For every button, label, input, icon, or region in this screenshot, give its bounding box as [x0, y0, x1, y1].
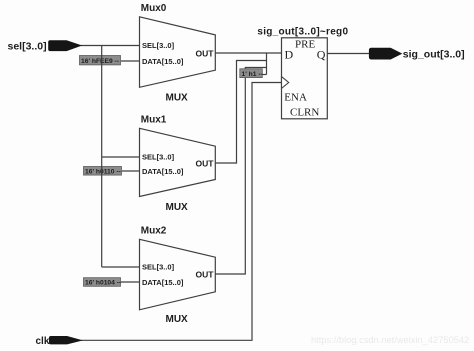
mux Mux1	[140, 115, 216, 214]
svg-text:SEL[3..0]: SEL[3..0]	[142, 263, 175, 272]
svg-text:1' h1 --: 1' h1 --	[242, 71, 263, 78]
mux Mux2	[140, 226, 216, 326]
register sig_out[3..0]~reg0	[257, 27, 348, 119]
svg-text:Q: Q	[317, 47, 326, 61]
svg-text:OUT: OUT	[196, 269, 215, 279]
output pin sig_out[3..0]	[369, 48, 464, 60]
wire Mux1 OUT up to D node	[215, 61, 266, 164]
watermark	[311, 335, 469, 345]
wire Mux2 OUT up to D node	[215, 68, 266, 275]
constant 16' h0110 (Mux1 DATA)	[84, 167, 122, 176]
svg-text:sig_out[3..0]: sig_out[3..0]	[403, 48, 465, 60]
svg-text:https://blog.csdn.net/weixin_4: https://blog.csdn.net/weixin_42750542	[311, 335, 469, 345]
wire sel bus from pin to Mux0 SEL	[81, 45, 140, 47]
wire register Q to output pin	[327, 53, 369, 55]
svg-text:SEL[3..0]: SEL[3..0]	[142, 153, 175, 162]
constant 1' h1 (register ENA)	[240, 69, 263, 78]
svg-text:Mux1: Mux1	[141, 115, 167, 126]
wire constant to Mux2 DATA	[121, 281, 140, 283]
svg-text:Mux0: Mux0	[141, 3, 167, 14]
mux Mux0	[140, 3, 216, 104]
wire constant to Mux0 DATA	[121, 60, 140, 62]
wire constant to Mux1 DATA	[122, 170, 140, 172]
svg-text:OUT: OUT	[196, 158, 215, 168]
svg-text:Mux2: Mux2	[141, 226, 167, 237]
wire merge vertical at D node	[266, 53, 268, 75]
svg-text:MUX: MUX	[166, 202, 189, 213]
svg-text:16' h0110 --: 16' h0110 --	[85, 168, 121, 175]
svg-text:DATA[15..0]: DATA[15..0]	[142, 167, 184, 176]
constant 16' hFEE9 (Mux0 DATA)	[80, 56, 121, 65]
svg-text:DATA[15..0]: DATA[15..0]	[142, 57, 184, 66]
svg-text:OUT: OUT	[196, 48, 215, 58]
svg-text:CLRN: CLRN	[290, 107, 319, 119]
svg-text:D: D	[285, 47, 294, 61]
svg-text:ENA: ENA	[284, 92, 307, 104]
svg-text:PRE: PRE	[295, 38, 315, 50]
svg-text:MUX: MUX	[166, 314, 189, 325]
wire sel vertical branch	[101, 46, 103, 268]
wire Mux0 OUT to register D	[215, 52, 281, 54]
svg-text:16' h0104 --: 16' h0104 --	[85, 280, 121, 287]
constant 16' h0104 (Mux2 DATA)	[84, 278, 122, 287]
input pin sel[3..0]	[8, 40, 81, 52]
svg-text:MUX: MUX	[166, 93, 189, 104]
svg-text:clk: clk	[36, 336, 50, 347]
input pin clk	[36, 336, 82, 347]
register clock input triangle	[282, 77, 289, 89]
svg-text:sel[3..0]: sel[3..0]	[8, 40, 47, 52]
svg-text:DATA[15..0]: DATA[15..0]	[142, 278, 184, 287]
wire clk to register clock input	[81, 83, 282, 341]
svg-text:16' hFEE9 --: 16' hFEE9 --	[81, 58, 119, 65]
wire ENA constant stub	[262, 74, 267, 76]
svg-text:SEL[3..0]: SEL[3..0]	[142, 41, 175, 50]
wire sel branch to Mux2 SEL	[102, 266, 140, 268]
wire sel branch to Mux1 SEL	[102, 156, 140, 158]
svg-text:sig_out[3..0]~reg0: sig_out[3..0]~reg0	[257, 27, 348, 38]
